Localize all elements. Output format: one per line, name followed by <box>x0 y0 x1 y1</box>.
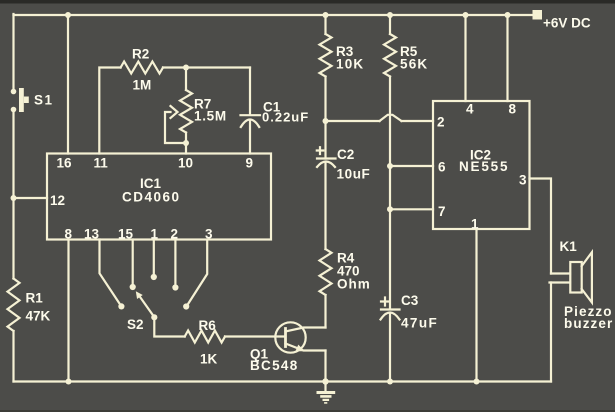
svg-text:R2: R2 <box>132 47 149 62</box>
svg-text:10: 10 <box>178 156 193 171</box>
svg-text:56K: 56K <box>400 57 428 72</box>
svg-text:1: 1 <box>471 217 479 232</box>
svg-text:2: 2 <box>171 226 179 241</box>
svg-text:1: 1 <box>151 226 159 241</box>
svg-text:10K: 10K <box>336 57 364 72</box>
svg-text:3: 3 <box>205 226 213 241</box>
svg-text:11: 11 <box>94 156 109 171</box>
svg-text:4: 4 <box>466 102 474 117</box>
svg-text:S1: S1 <box>34 93 54 108</box>
svg-text:1K: 1K <box>200 352 218 367</box>
svg-text:6: 6 <box>438 160 446 175</box>
svg-text:C3: C3 <box>401 293 419 308</box>
svg-text:R1: R1 <box>26 291 44 306</box>
svg-text:8: 8 <box>65 226 73 241</box>
svg-text:1M: 1M <box>133 78 152 93</box>
svg-text:9: 9 <box>246 156 254 171</box>
svg-text:BC548: BC548 <box>250 358 299 373</box>
svg-text:15: 15 <box>118 226 134 241</box>
svg-text:7: 7 <box>438 204 446 219</box>
svg-text:Ohm: Ohm <box>337 277 371 292</box>
svg-text:2: 2 <box>437 115 445 130</box>
svg-text:8: 8 <box>509 102 517 117</box>
svg-text:12: 12 <box>50 193 65 208</box>
svg-text:R6: R6 <box>199 318 217 333</box>
svg-text:10uF: 10uF <box>337 167 371 182</box>
svg-text:buzzer: buzzer <box>564 316 613 331</box>
svg-text:16: 16 <box>57 156 73 171</box>
svg-text:NE555: NE555 <box>459 159 509 174</box>
svg-text:3: 3 <box>519 173 527 188</box>
svg-text:47K: 47K <box>26 309 51 324</box>
svg-text:1.5M: 1.5M <box>194 109 227 124</box>
svg-text:+6V DC: +6V DC <box>543 16 591 31</box>
svg-text:CD4060: CD4060 <box>122 190 181 205</box>
svg-text:13: 13 <box>84 226 100 241</box>
svg-text:K1: K1 <box>560 239 578 254</box>
svg-text:C2: C2 <box>337 147 354 162</box>
svg-text:0.22uF: 0.22uF <box>262 109 309 124</box>
svg-text:47uF: 47uF <box>401 316 438 331</box>
svg-text:S2: S2 <box>127 317 144 332</box>
